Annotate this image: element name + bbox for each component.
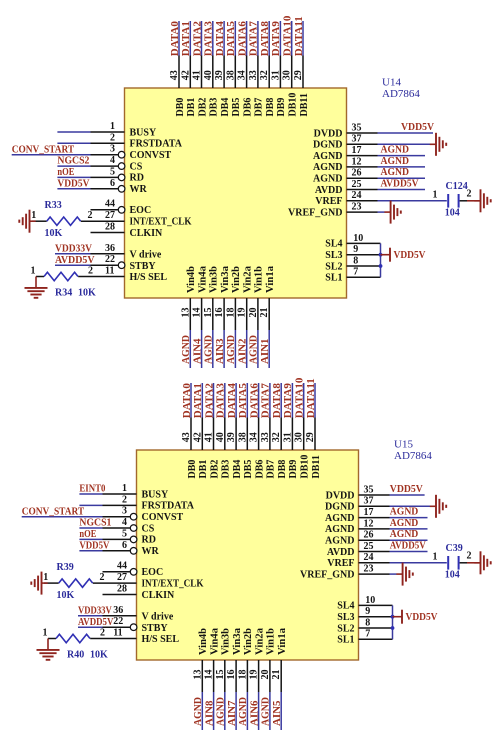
svg-text:104: 104 (445, 569, 460, 580)
svg-text:16: 16 (226, 670, 237, 680)
svg-text:AGND: AGND (313, 162, 342, 173)
svg-text:36: 36 (105, 243, 115, 254)
svg-text:SL4: SL4 (325, 239, 342, 250)
svg-text:7: 7 (365, 629, 370, 640)
svg-text:AGND: AGND (180, 335, 192, 364)
svg-text:Vin1b: Vin1b (266, 628, 277, 655)
svg-text:36: 36 (113, 605, 123, 616)
svg-text:C39: C39 (446, 543, 463, 554)
svg-text:DB2: DB2 (209, 460, 220, 479)
svg-text:35: 35 (364, 484, 374, 495)
svg-text:DATA7: DATA7 (260, 383, 272, 419)
svg-text:26: 26 (364, 530, 374, 541)
svg-text:34: 34 (237, 70, 248, 80)
svg-text:DB2: DB2 (197, 98, 208, 117)
svg-text:2: 2 (110, 132, 115, 143)
svg-text:22: 22 (105, 254, 115, 265)
svg-text:4: 4 (110, 155, 115, 166)
svg-text:38: 38 (225, 70, 236, 80)
svg-text:1: 1 (31, 210, 36, 221)
svg-text:31: 31 (282, 432, 293, 442)
svg-text:DB8: DB8 (265, 98, 276, 117)
svg-text:21: 21 (271, 670, 282, 680)
svg-text:AIN1: AIN1 (259, 339, 271, 365)
svg-text:Vin3b: Vin3b (209, 266, 220, 293)
svg-text:2: 2 (467, 551, 472, 562)
svg-text:BUSY: BUSY (142, 489, 169, 500)
svg-text:Vin2a: Vin2a (243, 266, 254, 293)
svg-text:AIN5: AIN5 (271, 700, 283, 726)
svg-text:DVDD: DVDD (326, 490, 355, 501)
svg-text:41: 41 (192, 70, 203, 80)
svg-text:32: 32 (271, 432, 282, 442)
svg-text:33: 33 (260, 432, 271, 442)
svg-text:AIN3: AIN3 (214, 338, 226, 364)
svg-text:EOC: EOC (142, 567, 164, 578)
svg-text:EINT0: EINT0 (79, 483, 105, 495)
svg-text:28: 28 (105, 221, 115, 232)
svg-text:39: 39 (226, 432, 237, 442)
svg-text:AIN2: AIN2 (237, 338, 249, 364)
svg-text:44: 44 (117, 561, 127, 572)
svg-text:Vin1a: Vin1a (277, 628, 288, 655)
svg-text:1: 1 (433, 190, 438, 201)
svg-text:2: 2 (88, 210, 93, 221)
svg-text:DB8: DB8 (277, 460, 288, 479)
svg-text:DB7: DB7 (254, 98, 265, 117)
svg-text:AVDD: AVDD (327, 547, 355, 558)
svg-text:1: 1 (43, 628, 48, 639)
svg-text:AGND: AGND (390, 517, 419, 529)
svg-text:NGCS1: NGCS1 (79, 517, 111, 529)
svg-text:STBY: STBY (142, 623, 169, 634)
svg-text:AIN7: AIN7 (226, 700, 238, 726)
svg-text:AGND: AGND (203, 335, 215, 364)
svg-text:SL4: SL4 (337, 601, 354, 612)
svg-text:23: 23 (364, 564, 374, 575)
svg-text:20: 20 (248, 308, 259, 318)
svg-text:DB1: DB1 (198, 460, 209, 479)
svg-text:DATA2: DATA2 (191, 21, 203, 57)
svg-text:VDD5V: VDD5V (57, 177, 89, 189)
svg-text:WR: WR (130, 184, 148, 195)
svg-text:CS: CS (130, 161, 143, 172)
svg-text:5: 5 (110, 166, 115, 177)
svg-text:U14: U14 (382, 77, 401, 89)
svg-text:37: 37 (352, 134, 362, 145)
svg-text:AGND: AGND (248, 335, 260, 364)
svg-text:14: 14 (192, 308, 203, 318)
svg-text:FRSTDATA: FRSTDATA (130, 139, 183, 150)
svg-text:21: 21 (259, 308, 270, 318)
svg-text:27: 27 (105, 210, 115, 221)
svg-text:DATA3: DATA3 (215, 383, 227, 419)
svg-text:18: 18 (225, 308, 236, 318)
svg-text:8: 8 (365, 617, 370, 628)
svg-text:R34: R34 (55, 288, 72, 299)
svg-text:DB1: DB1 (186, 98, 197, 117)
svg-text:SL2: SL2 (337, 623, 354, 634)
svg-text:DATA10: DATA10 (282, 15, 294, 56)
svg-text:39: 39 (214, 70, 225, 80)
svg-text:NGCS2: NGCS2 (57, 155, 89, 167)
svg-text:DB3: DB3 (209, 98, 220, 117)
svg-text:25: 25 (364, 541, 374, 552)
svg-text:DATA10: DATA10 (294, 377, 306, 418)
svg-text:RD: RD (130, 173, 144, 184)
svg-text:30: 30 (282, 70, 293, 80)
svg-text:Vin4a: Vin4a (197, 266, 208, 293)
svg-text:4: 4 (122, 517, 127, 528)
svg-text:AD7864: AD7864 (394, 450, 432, 462)
svg-text:AGND: AGND (381, 144, 410, 156)
svg-text:VDD33V: VDD33V (55, 243, 92, 255)
svg-text:AVDD5V: AVDD5V (381, 178, 419, 190)
svg-text:Vin3a: Vin3a (232, 628, 243, 655)
svg-text:17: 17 (352, 145, 362, 156)
svg-text:DB4: DB4 (220, 98, 231, 117)
svg-text:15: 15 (203, 308, 214, 318)
svg-text:1: 1 (110, 121, 115, 132)
svg-text:AGND: AGND (325, 513, 354, 524)
svg-text:VREF_GND: VREF_GND (300, 569, 354, 580)
svg-text:1: 1 (43, 572, 48, 583)
svg-text:7: 7 (353, 267, 358, 278)
svg-text:38: 38 (237, 432, 248, 442)
svg-text:25: 25 (352, 179, 362, 190)
svg-text:SL2: SL2 (325, 261, 342, 272)
svg-text:DATA4: DATA4 (226, 383, 238, 419)
svg-text:8: 8 (353, 255, 358, 266)
svg-text:14: 14 (204, 670, 215, 680)
svg-text:DB4: DB4 (232, 460, 243, 479)
svg-text:AGND: AGND (325, 524, 354, 535)
svg-text:DGND: DGND (313, 140, 342, 151)
svg-text:31: 31 (270, 70, 281, 80)
svg-text:AGND: AGND (325, 536, 354, 547)
svg-text:AVDD5V: AVDD5V (78, 616, 113, 628)
svg-text:34: 34 (249, 432, 260, 442)
svg-text:17: 17 (364, 507, 374, 518)
svg-text:DB6: DB6 (242, 98, 253, 117)
svg-text:2: 2 (122, 494, 127, 505)
svg-text:AGND: AGND (381, 166, 410, 178)
svg-text:CONV_START: CONV_START (22, 505, 85, 517)
svg-text:30: 30 (294, 432, 305, 442)
svg-text:VREF: VREF (315, 196, 342, 207)
svg-text:AGND: AGND (313, 151, 342, 162)
svg-text:13: 13 (180, 308, 191, 318)
svg-text:20: 20 (260, 670, 271, 680)
svg-text:C124: C124 (446, 181, 468, 192)
svg-text:Vin3b: Vin3b (221, 628, 232, 655)
svg-text:R33: R33 (45, 200, 62, 211)
svg-text:DATA5: DATA5 (225, 21, 237, 57)
svg-text:V drive: V drive (142, 611, 174, 622)
svg-text:DATA8: DATA8 (271, 383, 283, 419)
svg-text:Vin4a: Vin4a (209, 628, 220, 655)
svg-text:2: 2 (88, 266, 93, 277)
svg-text:R39: R39 (57, 562, 74, 573)
svg-text:DB5: DB5 (231, 98, 242, 117)
svg-text:AGND: AGND (390, 528, 419, 540)
svg-text:AIN6: AIN6 (248, 700, 260, 726)
svg-text:26: 26 (352, 168, 362, 179)
svg-text:DATA3: DATA3 (203, 21, 215, 57)
svg-text:24: 24 (352, 190, 362, 201)
svg-text:11: 11 (113, 628, 122, 639)
svg-text:V drive: V drive (130, 249, 162, 260)
svg-text:AGND: AGND (215, 697, 227, 726)
svg-text:AGND: AGND (192, 697, 204, 726)
svg-text:DATA6: DATA6 (236, 21, 248, 57)
svg-text:104: 104 (445, 207, 460, 218)
svg-text:VDD5V: VDD5V (406, 611, 438, 623)
svg-text:42: 42 (180, 70, 191, 80)
svg-text:DATA9: DATA9 (270, 21, 282, 57)
svg-text:13: 13 (192, 670, 203, 680)
svg-text:DGND: DGND (325, 502, 354, 513)
svg-text:CONV_START: CONV_START (12, 143, 75, 155)
svg-text:10K: 10K (90, 650, 108, 661)
svg-text:AIN8: AIN8 (203, 700, 215, 726)
svg-text:SL1: SL1 (325, 273, 342, 284)
svg-text:DB10: DB10 (288, 93, 299, 117)
svg-text:DATA11: DATA11 (293, 16, 305, 56)
svg-text:15: 15 (215, 670, 226, 680)
svg-text:AGND: AGND (390, 506, 419, 518)
svg-text:STBY: STBY (130, 261, 157, 272)
svg-text:43: 43 (169, 70, 180, 80)
svg-text:41: 41 (204, 432, 215, 442)
svg-text:44: 44 (105, 199, 115, 210)
svg-text:Vin2b: Vin2b (231, 266, 242, 293)
svg-text:Vin4b: Vin4b (198, 628, 209, 655)
svg-text:DB9: DB9 (276, 98, 287, 117)
svg-text:12: 12 (352, 156, 362, 167)
svg-text:12: 12 (364, 518, 374, 529)
svg-text:DB11: DB11 (299, 93, 310, 116)
svg-text:Vin1a: Vin1a (265, 266, 276, 293)
svg-text:10: 10 (353, 233, 363, 244)
svg-text:27: 27 (117, 572, 127, 583)
svg-text:U15: U15 (394, 439, 413, 451)
svg-text:10K: 10K (57, 590, 75, 601)
svg-text:Vin3a: Vin3a (220, 266, 231, 293)
svg-text:AVDD5V: AVDD5V (390, 540, 426, 552)
svg-text:35: 35 (352, 122, 362, 133)
svg-text:6: 6 (110, 178, 115, 189)
svg-text:CONVST: CONVST (142, 512, 184, 523)
svg-text:2: 2 (100, 628, 105, 639)
svg-text:22: 22 (113, 616, 123, 627)
svg-text:DB6: DB6 (254, 460, 265, 479)
svg-text:40: 40 (215, 432, 226, 442)
svg-text:DATA1: DATA1 (192, 383, 204, 418)
svg-text:DB0: DB0 (187, 460, 198, 479)
svg-text:DB3: DB3 (221, 460, 232, 479)
svg-text:VDD5V: VDD5V (390, 483, 423, 495)
svg-text:DB7: DB7 (266, 460, 277, 479)
svg-text:DATA8: DATA8 (259, 21, 271, 57)
svg-text:28: 28 (117, 583, 127, 594)
svg-text:3: 3 (122, 506, 127, 517)
svg-text:CS: CS (142, 523, 155, 534)
svg-text:SL3: SL3 (337, 612, 354, 623)
svg-text:19: 19 (237, 308, 248, 318)
svg-text:DATA6: DATA6 (248, 383, 260, 419)
svg-text:37: 37 (364, 496, 374, 507)
svg-text:6: 6 (122, 540, 127, 551)
svg-text:DB9: DB9 (288, 460, 299, 479)
svg-text:nOE: nOE (57, 166, 74, 178)
svg-text:AVDD5V: AVDD5V (55, 254, 95, 266)
svg-text:VDD5V: VDD5V (394, 249, 426, 261)
svg-text:DATA7: DATA7 (248, 21, 260, 57)
svg-text:1: 1 (122, 483, 127, 494)
svg-text:DB11: DB11 (311, 455, 322, 478)
svg-text:VDD33V: VDD33V (78, 605, 112, 617)
svg-text:DATA9: DATA9 (282, 383, 294, 419)
svg-text:Vin4b: Vin4b (186, 266, 197, 293)
svg-text:33: 33 (248, 70, 259, 80)
svg-text:1: 1 (31, 266, 36, 277)
svg-text:10: 10 (365, 595, 375, 606)
svg-text:29: 29 (305, 432, 316, 442)
svg-text:AGND: AGND (313, 174, 342, 185)
svg-text:DATA0: DATA0 (181, 383, 193, 419)
svg-text:9: 9 (353, 244, 358, 255)
svg-text:INT/EXT_CLK: INT/EXT_CLK (142, 578, 204, 589)
svg-text:29: 29 (293, 70, 304, 80)
svg-text:DB10: DB10 (300, 455, 311, 479)
svg-text:DATA11: DATA11 (305, 378, 317, 418)
svg-text:3: 3 (110, 144, 115, 155)
svg-text:Vin2a: Vin2a (254, 628, 265, 655)
svg-text:DATA1: DATA1 (180, 21, 192, 56)
svg-text:VDD5V: VDD5V (79, 539, 109, 551)
svg-text:H/S SEL: H/S SEL (130, 272, 168, 283)
svg-text:32: 32 (259, 70, 270, 80)
svg-text:1: 1 (433, 552, 438, 563)
svg-text:VREF_GND: VREF_GND (288, 207, 342, 218)
svg-text:DATA5: DATA5 (237, 383, 249, 419)
svg-text:18: 18 (237, 670, 248, 680)
svg-text:10K: 10K (78, 288, 96, 299)
svg-text:9: 9 (365, 606, 370, 617)
svg-text:Vin2b: Vin2b (243, 628, 254, 655)
svg-text:DATA4: DATA4 (214, 21, 226, 57)
svg-text:RD: RD (142, 535, 156, 546)
svg-text:DB5: DB5 (243, 460, 254, 479)
svg-text:23: 23 (352, 202, 362, 213)
svg-text:DVDD: DVDD (314, 128, 343, 139)
svg-text:AIN4: AIN4 (191, 338, 203, 364)
svg-text:42: 42 (192, 432, 203, 442)
svg-text:43: 43 (181, 432, 192, 442)
svg-text:CONVST: CONVST (130, 150, 172, 161)
svg-text:AGND: AGND (237, 697, 249, 726)
svg-text:AVDD: AVDD (315, 185, 343, 196)
svg-text:DATA0: DATA0 (169, 21, 181, 57)
svg-text:DATA2: DATA2 (203, 383, 215, 419)
svg-text:16: 16 (214, 308, 225, 318)
svg-text:BUSY: BUSY (130, 127, 157, 138)
svg-text:WR: WR (142, 546, 160, 557)
svg-text:SL3: SL3 (325, 250, 342, 261)
svg-text:2: 2 (100, 572, 105, 583)
svg-text:5: 5 (122, 528, 127, 539)
svg-text:AGND: AGND (260, 697, 272, 726)
svg-text:24: 24 (364, 552, 374, 563)
svg-text:CLKIN: CLKIN (130, 228, 164, 239)
svg-text:DB0: DB0 (175, 98, 186, 117)
svg-text:AGND: AGND (225, 335, 237, 364)
svg-text:10K: 10K (45, 228, 63, 239)
svg-text:AGND: AGND (381, 155, 410, 167)
svg-text:11: 11 (105, 266, 114, 277)
svg-text:CLKIN: CLKIN (142, 590, 176, 601)
svg-text:INT/EXT_CLK: INT/EXT_CLK (130, 217, 192, 228)
svg-text:nOE: nOE (79, 528, 96, 540)
svg-text:R40: R40 (67, 650, 84, 661)
svg-text:FRSTDATA: FRSTDATA (142, 501, 195, 512)
svg-text:VREF: VREF (327, 558, 354, 569)
svg-text:EOC: EOC (130, 205, 152, 216)
svg-text:40: 40 (203, 70, 214, 80)
svg-text:Vin1b: Vin1b (254, 266, 265, 293)
svg-text:19: 19 (249, 670, 260, 680)
svg-text:AD7864: AD7864 (382, 88, 420, 100)
svg-text:VDD5V: VDD5V (401, 121, 434, 133)
svg-text:H/S SEL: H/S SEL (142, 634, 180, 645)
svg-text:SL1: SL1 (337, 635, 354, 646)
